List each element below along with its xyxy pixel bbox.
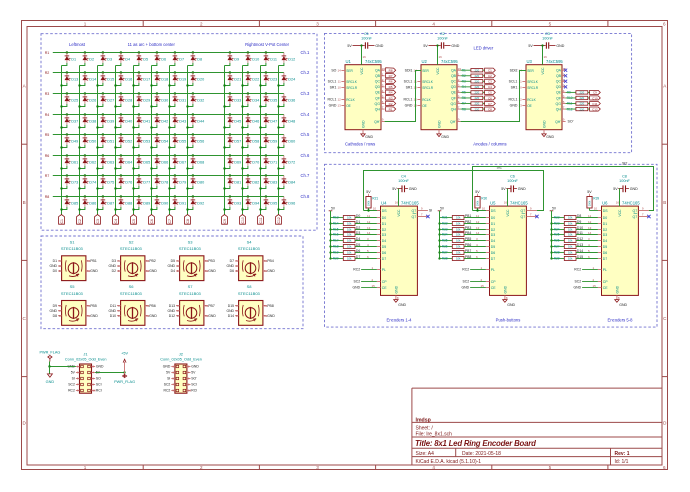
svg-text:10k: 10k xyxy=(568,245,573,249)
svg-text:Encoders 5-8: Encoders 5-8 xyxy=(608,318,634,323)
svg-text:D56: D56 xyxy=(197,140,204,144)
svg-text:S6: S6 xyxy=(129,284,135,289)
svg-text:D40: D40 xyxy=(125,120,132,124)
svg-text:R4: R4 xyxy=(389,91,393,95)
pin 6 D7 net PB8 xyxy=(464,255,495,261)
pin 15 CE net GND xyxy=(462,284,497,290)
svg-text:74xC595: 74xC595 xyxy=(546,59,563,64)
LED D95 xyxy=(259,195,277,210)
global label C4 xyxy=(485,85,496,89)
svg-text:R1: R1 xyxy=(45,51,50,55)
pin 6 net SO' xyxy=(187,377,197,381)
svg-text:C5: C5 xyxy=(132,219,136,223)
svg-text:D9: D9 xyxy=(577,220,581,224)
power flag PWR_FLAG xyxy=(39,351,60,362)
svg-text:D6: D6 xyxy=(382,251,387,255)
global label C2 xyxy=(485,74,496,78)
svg-text:5V: 5V xyxy=(392,187,397,191)
svg-text:D2: D2 xyxy=(603,228,608,232)
svg-text:D1: D1 xyxy=(71,58,76,62)
wire column bus C8 xyxy=(187,66,189,215)
svg-text:CE: CE xyxy=(603,286,609,290)
svg-text:Leftmost: Leftmost xyxy=(69,42,86,47)
svg-text:Rightmost V-Pot Center: Rightmost V-Pot Center xyxy=(245,42,290,47)
svg-text:D14: D14 xyxy=(577,249,583,253)
svg-text:GND: GND xyxy=(507,303,515,307)
svg-text:Conn_02x05_Odd_Even: Conn_02x05_Odd_Even xyxy=(160,357,202,361)
svg-text:Ch.4: Ch.4 xyxy=(301,112,311,117)
svg-text:D2: D2 xyxy=(491,228,496,232)
pin 15 QA xyxy=(375,67,385,73)
resistor R26 10k xyxy=(550,239,576,243)
svg-text:PB3: PB3 xyxy=(465,226,472,230)
svg-text:D29: D29 xyxy=(143,99,150,103)
wire VCC xyxy=(361,46,363,65)
svg-text:10: 10 xyxy=(373,207,377,211)
svg-text:U6: U6 xyxy=(602,201,608,206)
svg-text:GND: GND xyxy=(510,104,518,108)
svg-text:5V: 5V xyxy=(501,187,506,191)
pin 1 net GND xyxy=(67,365,79,369)
svg-text:220: 220 xyxy=(474,96,479,100)
svg-text:R8: R8 xyxy=(389,69,393,73)
global label C12 xyxy=(276,215,282,225)
svg-text:D31: D31 xyxy=(179,99,186,103)
svg-text:QC: QC xyxy=(375,80,381,84)
resistor R15 10k xyxy=(329,228,355,232)
svg-text:D63: D63 xyxy=(107,161,114,165)
pin 5 D6 net PB7 xyxy=(464,249,495,255)
pin 3 net 5V xyxy=(71,371,80,375)
resistor R21 100k xyxy=(366,190,378,210)
LED D23 xyxy=(259,71,277,86)
LED D65 xyxy=(132,154,150,169)
LED D26 xyxy=(78,92,96,107)
svg-text:RCLK: RCLK xyxy=(527,98,536,102)
svg-text:GND: GND xyxy=(409,187,417,191)
svg-text:U1: U1 xyxy=(346,59,352,64)
capacitor C1 100nF xyxy=(347,32,383,49)
svg-text:10k: 10k xyxy=(568,239,573,243)
svg-text:D74: D74 xyxy=(89,181,96,185)
svg-text:RCI: RCI xyxy=(96,389,102,393)
svg-text:Id: 1/1: Id: 1/1 xyxy=(615,459,629,465)
resistor R7 220 xyxy=(461,102,485,106)
resistor R33 10k xyxy=(438,228,464,232)
svg-text:100k: 100k xyxy=(588,200,592,206)
svg-text:D46: D46 xyxy=(252,120,259,124)
svg-text:PB2: PB2 xyxy=(149,259,156,263)
svg-text:CP: CP xyxy=(382,280,388,284)
svg-text:SO: SO xyxy=(331,69,336,73)
global label R7 xyxy=(386,73,396,78)
global label C6 xyxy=(149,215,155,225)
svg-text:Ch.8: Ch.8 xyxy=(301,194,311,199)
connector J1 Conn_02x05_Odd_Even xyxy=(65,351,107,393)
svg-text:D88: D88 xyxy=(125,202,132,206)
svg-text:14: 14 xyxy=(588,231,592,235)
pin 11 D0 net D0 xyxy=(355,214,386,220)
svg-text:QD: QD xyxy=(556,85,562,89)
svg-text:D4: D4 xyxy=(356,237,360,241)
svg-text:D15: D15 xyxy=(107,78,114,82)
svg-text:C11: C11 xyxy=(592,102,598,106)
LED D47 xyxy=(259,113,277,128)
svg-text:STEC11B03: STEC11B03 xyxy=(120,246,143,251)
svg-text:D12: D12 xyxy=(288,58,295,62)
wire VCC xyxy=(507,189,509,207)
svg-text:16: 16 xyxy=(616,201,620,205)
LED D44 xyxy=(186,113,204,128)
wire U2 QH' to U3 SER xyxy=(461,71,526,122)
svg-text:GND: GND xyxy=(208,314,216,318)
LED D58 xyxy=(241,133,259,148)
wire column bus C7 xyxy=(169,66,171,215)
svg-text:D9: D9 xyxy=(53,304,57,308)
svg-text:5V: 5V xyxy=(423,44,428,48)
svg-text:R6: R6 xyxy=(389,80,393,84)
svg-text:GND: GND xyxy=(191,365,199,369)
no-connect xyxy=(564,74,567,77)
pin 10 SRCLR xyxy=(406,86,434,90)
svg-text:D4: D4 xyxy=(171,269,175,273)
svg-text:B: B xyxy=(236,269,238,273)
svg-text:D18: D18 xyxy=(161,78,168,82)
svg-text:D8: D8 xyxy=(53,314,57,318)
svg-text:D85: D85 xyxy=(71,202,78,206)
svg-text:R38: R38 xyxy=(442,257,448,261)
pin 3 D4 net D12 xyxy=(576,237,607,243)
svg-text:R35: R35 xyxy=(442,239,448,243)
global label R1 xyxy=(386,107,396,112)
global label C7 xyxy=(485,101,496,105)
svg-text:10: 10 xyxy=(482,207,486,211)
resistor R9 220 xyxy=(566,91,590,95)
pin 7 Q7bar no-connect xyxy=(521,213,539,220)
svg-text:PB5: PB5 xyxy=(465,237,472,241)
LED D53 xyxy=(132,133,150,148)
svg-text:QA: QA xyxy=(451,69,457,73)
svg-text:4: 4 xyxy=(432,22,435,27)
svg-text:10k: 10k xyxy=(568,222,573,226)
svg-text:D68: D68 xyxy=(197,161,204,165)
pin 1 PL net RC2 xyxy=(462,266,495,272)
resistor R22 10k xyxy=(552,216,577,220)
svg-text:10k: 10k xyxy=(568,216,573,220)
title block xyxy=(412,388,662,465)
svg-text:R37: R37 xyxy=(442,251,448,255)
svg-text:LED driver: LED driver xyxy=(474,46,494,51)
svg-text:D32: D32 xyxy=(197,99,204,103)
svg-text:GND: GND xyxy=(405,104,413,108)
svg-text:VCC: VCC xyxy=(506,209,510,217)
svg-text:S8: S8 xyxy=(247,284,253,289)
svg-text:SRCLK: SRCLK xyxy=(422,80,434,84)
pin C net GND xyxy=(226,264,238,268)
svg-text:PB3: PB3 xyxy=(208,259,215,263)
capacitor C3 100nF xyxy=(528,32,564,49)
svg-text:D81: D81 xyxy=(234,181,241,185)
resistor R32 10k xyxy=(438,222,464,226)
resistor R14 10k xyxy=(329,222,355,226)
pin 7 Q7bar no-connect xyxy=(633,213,651,220)
svg-text:SCI: SCI xyxy=(96,383,102,387)
svg-text:C10: C10 xyxy=(592,96,598,100)
svg-text:PB8: PB8 xyxy=(465,255,472,259)
svg-text:Ch.3: Ch.3 xyxy=(301,91,311,96)
svg-text:QB: QB xyxy=(556,74,562,78)
section box: LED drivers xyxy=(325,33,632,152)
wire column bus C10 xyxy=(242,66,244,215)
svg-text:A: A xyxy=(118,259,120,263)
svg-text:10k: 10k xyxy=(456,233,461,237)
svg-text:QH: QH xyxy=(375,107,381,111)
svg-text:16: 16 xyxy=(544,55,548,59)
no-connect xyxy=(564,69,567,72)
svg-text:Push-buttons: Push-buttons xyxy=(496,318,521,323)
svg-text:10k: 10k xyxy=(568,228,573,232)
pin 14 D3 net D3 xyxy=(355,231,386,237)
resistor R34 10k xyxy=(438,233,464,237)
svg-text:5V: 5V xyxy=(587,190,592,194)
pin 10 net RCI xyxy=(92,389,102,393)
svg-text:15: 15 xyxy=(372,284,376,288)
svg-text:12: 12 xyxy=(337,98,341,102)
svg-text:S3: S3 xyxy=(188,239,194,244)
svg-text:D86: D86 xyxy=(89,202,96,206)
pin 10 net RCI xyxy=(187,389,197,393)
svg-text:U5: U5 xyxy=(490,201,496,206)
svg-text:Encoders 1-4: Encoders 1-4 xyxy=(387,318,413,323)
svg-text:D48: D48 xyxy=(288,120,295,124)
svg-text:GND: GND xyxy=(90,314,98,318)
svg-text:5V: 5V xyxy=(71,371,76,375)
wire row Ch.4 xyxy=(53,114,284,116)
pin 4 net 5V xyxy=(187,371,196,375)
svg-text:11: 11 xyxy=(476,214,479,218)
LED D70 xyxy=(241,154,259,169)
pin 4 D5 net D13 xyxy=(576,243,607,249)
svg-text:SR1: SR1 xyxy=(511,86,518,90)
rotary encoder S1 STEC11B03 xyxy=(61,239,86,280)
pin 7 net SC2 xyxy=(164,383,175,387)
svg-text:D15: D15 xyxy=(228,304,234,308)
svg-text:D58: D58 xyxy=(252,140,259,144)
wire VCC xyxy=(398,189,400,207)
LED D51 xyxy=(96,133,114,148)
svg-text:10k: 10k xyxy=(568,251,573,255)
svg-text:D4: D4 xyxy=(603,239,608,243)
svg-text:PL: PL xyxy=(491,268,495,272)
svg-text:SR1: SR1 xyxy=(330,86,337,90)
svg-text:SO: SO xyxy=(96,377,101,381)
LED D60 xyxy=(277,135,295,149)
svg-text:D39: D39 xyxy=(107,120,114,124)
svg-text:R14: R14 xyxy=(333,222,339,226)
svg-text:74HC165: 74HC165 xyxy=(401,201,419,206)
svg-text:GND: GND xyxy=(518,187,526,191)
pin A net D7 xyxy=(230,259,239,263)
svg-text:R30: R30 xyxy=(481,197,487,201)
IC U2 74xC595 xyxy=(421,59,458,130)
resistor R29 10k xyxy=(550,257,576,261)
svg-text:D54: D54 xyxy=(161,140,168,144)
svg-text:GND: GND xyxy=(49,264,57,268)
svg-text:GND: GND xyxy=(49,309,57,313)
global label C11 xyxy=(258,215,264,225)
resistor R16 10k xyxy=(329,233,355,237)
resistor R10 220 xyxy=(566,96,590,100)
LED D33 xyxy=(223,92,241,107)
pin 1 QB xyxy=(556,72,566,78)
LED D88 xyxy=(114,195,132,210)
svg-text:R27: R27 xyxy=(554,245,560,249)
svg-text:D1: D1 xyxy=(356,220,360,224)
svg-text:OE: OE xyxy=(346,104,351,108)
pin 6 QG xyxy=(375,100,385,106)
pin 6 D7 net D7 xyxy=(355,255,386,261)
svg-text:10k: 10k xyxy=(456,222,461,226)
LED D76 xyxy=(114,174,132,189)
svg-text:D72: D72 xyxy=(288,161,295,165)
svg-text:R5: R5 xyxy=(389,85,393,89)
svg-text:D94: D94 xyxy=(252,202,259,206)
svg-text:R28: R28 xyxy=(554,251,560,255)
svg-text:SI2: SI2 xyxy=(622,162,627,166)
svg-text:10k: 10k xyxy=(456,245,461,249)
svg-text:5: 5 xyxy=(549,22,552,27)
svg-text:11: 11 xyxy=(338,80,341,84)
svg-text:C3: C3 xyxy=(545,32,550,36)
svg-text:B: B xyxy=(177,269,179,273)
svg-text:D4: D4 xyxy=(382,239,387,243)
svg-text:D45: D45 xyxy=(234,120,241,124)
svg-text:D47: D47 xyxy=(270,120,277,124)
LED D87 xyxy=(96,195,114,210)
svg-text:5V: 5V xyxy=(347,44,352,48)
resistor R20 10k xyxy=(329,257,355,261)
svg-text:C3: C3 xyxy=(488,80,492,84)
pin 13 OE xyxy=(329,104,351,108)
svg-text:14: 14 xyxy=(337,69,341,73)
wire 5V to J1 pin4 xyxy=(95,372,124,374)
pin 5 net SI xyxy=(72,377,80,381)
svg-text:S7: S7 xyxy=(188,284,194,289)
svg-text:A: A xyxy=(177,259,179,263)
svg-text:5: 5 xyxy=(549,465,552,470)
resistor R19 10k xyxy=(329,251,355,255)
svg-text:PB4: PB4 xyxy=(267,259,274,263)
LED D75 xyxy=(96,174,114,189)
svg-text:GND: GND xyxy=(543,120,547,128)
svg-text:D3: D3 xyxy=(491,233,496,237)
power flag PWR_FLAG xyxy=(114,373,135,385)
section box: LED matrix xyxy=(41,34,317,231)
LED D2 xyxy=(80,51,95,65)
svg-text:D69: D69 xyxy=(234,161,241,165)
svg-text:SO': SO' xyxy=(191,377,197,381)
svg-text:RCI: RCI xyxy=(191,389,197,393)
svg-text:D6: D6 xyxy=(161,58,166,62)
svg-text:10k: 10k xyxy=(347,233,352,237)
pin 15 CE net GND xyxy=(574,284,609,290)
svg-text:GND: GND xyxy=(163,365,171,369)
pin 15 QA xyxy=(451,67,461,73)
svg-text:QE: QE xyxy=(556,91,562,95)
svg-text:D17: D17 xyxy=(143,78,150,82)
ground xyxy=(542,130,555,139)
section box: input registers xyxy=(325,164,658,327)
svg-text:OE: OE xyxy=(527,104,532,108)
svg-text:D6: D6 xyxy=(491,251,496,255)
pin 13 OE xyxy=(510,104,532,108)
svg-text:C6: C6 xyxy=(488,96,492,100)
svg-text:100nF: 100nF xyxy=(619,179,630,183)
pin 2 QC xyxy=(556,78,566,84)
LED D25 xyxy=(60,92,78,107)
LED D64 xyxy=(114,154,132,169)
LED D94 xyxy=(241,195,259,210)
LED D96 xyxy=(277,197,295,211)
svg-text:15: 15 xyxy=(382,67,386,71)
svg-text:10k: 10k xyxy=(456,239,461,243)
svg-text:D14: D14 xyxy=(228,314,234,318)
svg-text:RC2: RC2 xyxy=(462,268,469,272)
LED D67 xyxy=(168,154,186,169)
svg-text:74xC595: 74xC595 xyxy=(441,59,458,64)
svg-text:GND: GND xyxy=(619,303,627,307)
svg-text:220: 220 xyxy=(474,80,479,84)
pin 4 net 5V xyxy=(92,371,101,375)
connector J2 Conn_02x05_Odd_Even xyxy=(160,351,202,393)
svg-text:D4: D4 xyxy=(491,239,496,243)
svg-text:10k: 10k xyxy=(568,257,573,261)
pin 9 QH' xyxy=(374,118,385,124)
LED D83 xyxy=(259,174,277,189)
global label R8 xyxy=(42,194,52,200)
pin 1 QB xyxy=(375,72,385,78)
LED D19 xyxy=(168,71,186,86)
resistor R30 100k xyxy=(475,190,487,210)
LED D41 xyxy=(132,113,150,128)
rotary encoder S6 STEC11B03 xyxy=(120,284,145,325)
svg-text:GND: GND xyxy=(365,135,373,139)
svg-text:D2: D2 xyxy=(89,58,94,62)
LED D36 xyxy=(277,94,295,108)
resistor R37 10k xyxy=(438,251,464,255)
svg-text:KiCad E.D.A. kicad (5.1.10)-1: KiCad E.D.A. kicad (5.1.10)-1 xyxy=(416,459,482,465)
ground xyxy=(437,130,450,139)
resistor R5 220 xyxy=(461,91,485,95)
svg-text:D6: D6 xyxy=(230,269,234,273)
pin 14 D3 net PB4 xyxy=(464,231,495,237)
svg-text:PB1: PB1 xyxy=(465,214,472,218)
svg-text:QB: QB xyxy=(451,74,457,78)
LED D14 xyxy=(78,71,96,86)
svg-text:C8: C8 xyxy=(186,219,190,223)
svg-text:D13: D13 xyxy=(71,78,78,82)
pin B net D8 xyxy=(53,314,62,318)
pin 9 QH' xyxy=(555,118,566,124)
svg-text:220: 220 xyxy=(474,85,479,89)
global label C8 xyxy=(185,215,191,225)
svg-text:220: 220 xyxy=(579,102,584,106)
ground xyxy=(394,295,407,306)
svg-text:100k: 100k xyxy=(367,200,371,206)
pin 2 QC xyxy=(451,78,461,84)
svg-text:C4: C4 xyxy=(114,219,118,223)
pin A net D3 xyxy=(112,259,121,263)
